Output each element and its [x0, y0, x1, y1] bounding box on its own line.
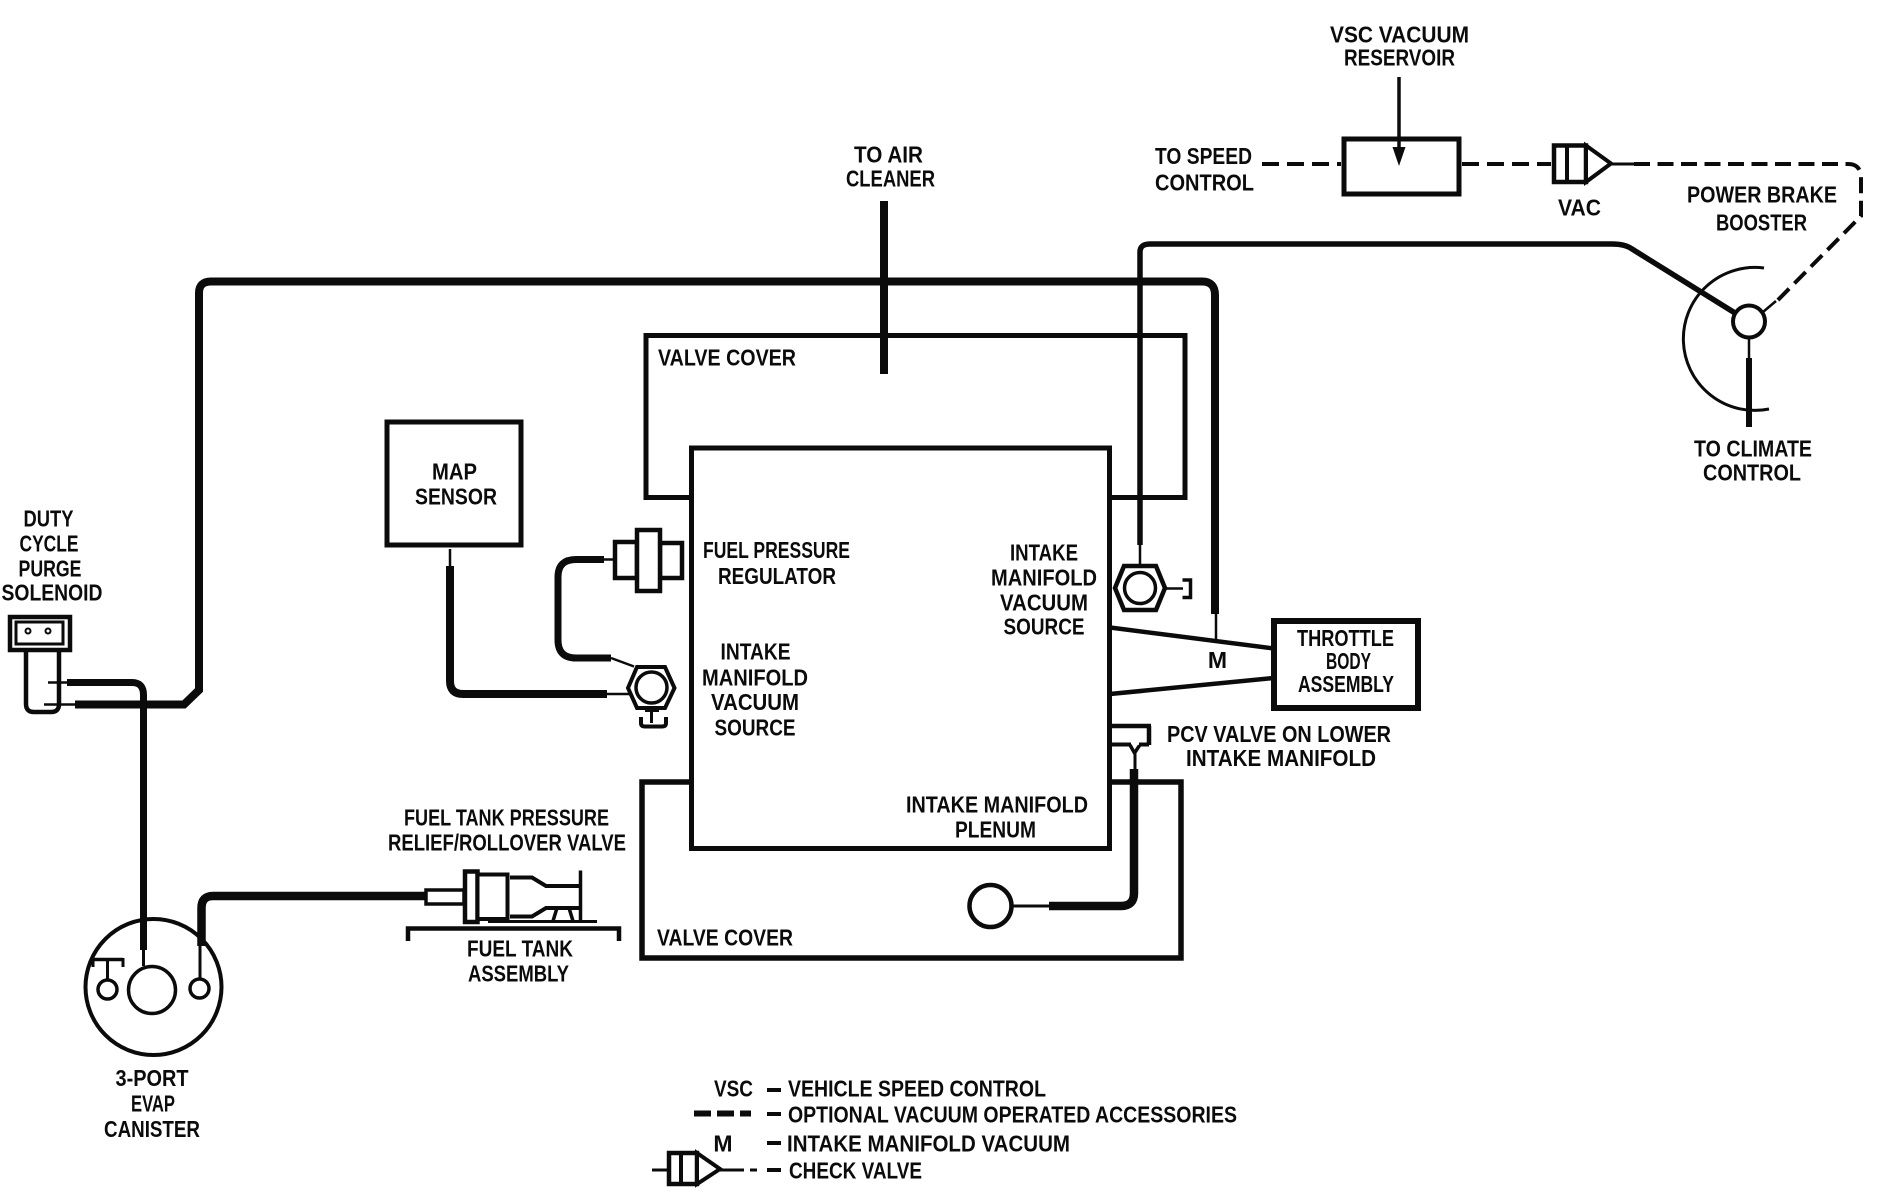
svg-text:OPTIONAL VACUUM OPERATED ACCES: OPTIONAL VACUUM OPERATED ACCESSORIES — [788, 1102, 1237, 1128]
breather circle — [970, 885, 1012, 927]
svg-text:TO CLIMATE: TO CLIMATE — [1694, 436, 1812, 462]
svg-text:VALVE COVER: VALVE COVER — [658, 345, 796, 371]
svg-text:REGULATOR: REGULATOR — [718, 563, 836, 589]
svg-text:ASSEMBLY: ASSEMBLY — [1298, 671, 1394, 697]
fuel tank assembly bracket — [408, 929, 619, 942]
svg-text:SENSOR: SENSOR — [415, 484, 497, 510]
legend — [652, 1076, 1237, 1185]
vsc vacuum reservoir box — [1344, 139, 1459, 194]
wire: thin tip into trapezoid — [1215, 614, 1218, 640]
svg-text:SOURCE: SOURCE — [715, 715, 796, 741]
wire: to climate control stub — [1748, 338, 1751, 361]
fuel tank pressure relief/rollover valve — [426, 871, 597, 923]
throttle body assembly box — [1274, 621, 1418, 708]
svg-text:INTAKE: INTAKE — [721, 639, 791, 665]
arrow into reservoir — [1397, 77, 1401, 149]
svg-text:CANISTER: CANISTER — [104, 1116, 200, 1142]
throttle body trapezoid lines — [1110, 628, 1274, 649]
svg-text:MAP: MAP — [432, 459, 477, 485]
duty cycle purge solenoid — [10, 617, 70, 712]
svg-text:INTAKE MANIFOLD: INTAKE MANIFOLD — [1186, 745, 1376, 771]
svg-text:FUEL TANK: FUEL TANK — [467, 936, 573, 962]
svg-text:INTAKE MANIFOLD VACUUM: INTAKE MANIFOLD VACUUM — [787, 1131, 1070, 1157]
svg-text:SOLENOID: SOLENOID — [2, 580, 103, 606]
svg-text:CONTROL: CONTROL — [1703, 460, 1801, 486]
svg-text:VEHICLE SPEED CONTROL: VEHICLE SPEED CONTROL — [788, 1076, 1046, 1102]
wire: dashed vsc line right — [1462, 162, 1551, 166]
wire: power brake booster hose — [1140, 244, 1735, 545]
wire: main purge hose (solenoid to manifold) — [75, 282, 1215, 705]
svg-text:TO AIR: TO AIR — [854, 142, 923, 168]
svg-text:TO SPEED: TO SPEED — [1155, 143, 1252, 169]
hex fitting (left intake manifold vacuum source) — [628, 667, 675, 727]
svg-text:MANIFOLD: MANIFOLD — [702, 665, 808, 691]
svg-text:VSC: VSC — [714, 1076, 753, 1102]
svg-text:FUEL PRESSURE: FUEL PRESSURE — [703, 537, 850, 563]
wire: dashed line to booster — [1634, 164, 1861, 304]
svg-text:POWER BRAKE: POWER BRAKE — [1687, 182, 1837, 208]
fuel pressure regulator fitting — [615, 530, 682, 591]
svg-text:DUTY: DUTY — [24, 506, 74, 532]
svg-text:CLEANER: CLEANER — [846, 166, 935, 192]
svg-text:RESERVOIR: RESERVOIR — [1344, 45, 1455, 71]
valve cover (upper) — [646, 336, 1185, 498]
wire: to air cleaner line — [880, 201, 888, 374]
svg-text:PLENUM: PLENUM — [955, 817, 1036, 843]
svg-text:BOOSTER: BOOSTER — [1716, 210, 1807, 236]
wire: solid stub after check valve — [1611, 163, 1634, 166]
intake manifold plenum box — [692, 448, 1110, 849]
valve cover (lower) — [642, 782, 1181, 958]
power brake booster arc — [1683, 267, 1769, 410]
legend: check valve row — [652, 1169, 669, 1172]
svg-text:INTAKE: INTAKE — [1010, 540, 1078, 566]
pcv valve fitting — [1112, 726, 1151, 770]
svg-text:FUEL TANK PRESSURE: FUEL TANK PRESSURE — [404, 805, 609, 831]
canister ports — [93, 958, 209, 1014]
wire: canister to fuel tank valve — [199, 944, 202, 978]
svg-text:SOURCE: SOURCE — [1004, 614, 1085, 640]
pcv hose — [1049, 769, 1134, 906]
svg-text:CHECK VALVE: CHECK VALVE — [789, 1158, 922, 1184]
svg-text:EVAP: EVAP — [131, 1091, 175, 1117]
svg-text:ASSEMBLY: ASSEMBLY — [468, 961, 569, 987]
svg-text:VAC: VAC — [1558, 195, 1601, 221]
wire: map sensor hose — [450, 566, 607, 694]
svg-text:INTAKE MANIFOLD: INTAKE MANIFOLD — [906, 792, 1088, 818]
booster port circle — [1733, 306, 1765, 338]
map sensor box — [387, 422, 521, 545]
svg-text:VACUUM: VACUUM — [711, 689, 799, 715]
svg-text:RELIEF/ROLLOVER VALVE: RELIEF/ROLLOVER VALVE — [388, 830, 626, 856]
hex fitting (right intake manifold vacuum source) — [1115, 566, 1191, 610]
check valve VAC — [1554, 146, 1611, 183]
svg-text:PCV VALVE ON LOWER: PCV VALVE ON LOWER — [1167, 721, 1391, 747]
svg-text:VACUUM: VACUUM — [1000, 590, 1088, 616]
svg-text:MANIFOLD: MANIFOLD — [991, 565, 1097, 591]
svg-text:M: M — [1208, 647, 1227, 673]
wire: solenoid lower port stub — [44, 703, 78, 706]
wire: solenoid upper port to canister — [48, 681, 68, 684]
fuel pressure regulator hose — [603, 558, 615, 561]
wire: map sensor lead thin — [449, 549, 452, 568]
svg-text:M: M — [713, 1131, 732, 1157]
svg-text:3-PORT: 3-PORT — [116, 1065, 189, 1091]
svg-text:VALVE COVER: VALVE COVER — [657, 925, 793, 951]
svg-text:CONTROL: CONTROL — [1155, 170, 1254, 196]
wire: thin link to hex fitting — [1139, 543, 1142, 567]
svg-text:PURGE: PURGE — [19, 556, 82, 582]
svg-text:CYCLE: CYCLE — [20, 531, 79, 557]
legend: dashed row — [694, 1111, 751, 1117]
wire: dashed vsc line left — [1262, 162, 1341, 166]
3-port evap canister body — [86, 919, 222, 1055]
